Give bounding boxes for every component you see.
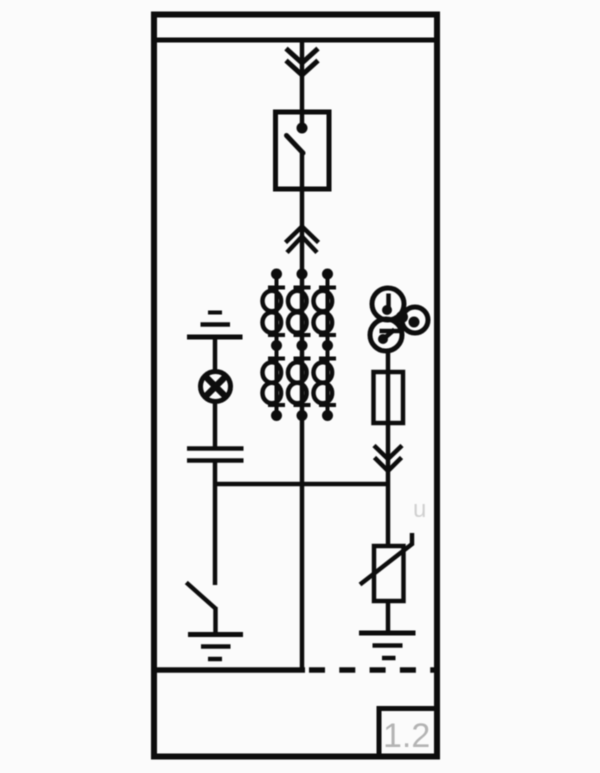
ground (earthing switch) <box>188 635 243 660</box>
withdrawable contact arrows (incoming) <box>286 49 318 76</box>
indicator lamp HL1 <box>201 372 231 402</box>
surge arrester diagonal with hook <box>360 533 412 585</box>
wire: capacitor to earthing switch <box>213 461 218 586</box>
wire: arrester to ground <box>386 601 391 633</box>
ground (inverted, voltage indicator feed) <box>187 313 243 338</box>
wire: lamp to capacitor <box>213 402 218 448</box>
wire: switch to ground <box>213 607 218 633</box>
voltage transformer (three windings) <box>370 288 428 351</box>
current transformer CT2 (middle) <box>288 269 311 422</box>
compartment floor line (solid) <box>154 667 305 673</box>
capacitor C1 <box>187 449 244 461</box>
ground (arrester) <box>359 633 416 658</box>
withdrawable contact arrows (VT branch) <box>374 446 402 472</box>
withdrawable contact arrows (below breaker) <box>286 227 319 253</box>
wire: ground to lamp <box>213 337 218 372</box>
circuit breaker enclosure <box>276 112 330 189</box>
svg-text:1.2: 1.2 <box>383 717 430 755</box>
title block <box>377 706 441 757</box>
wire: bus to surge arrester <box>386 484 391 546</box>
surge arrester FV1 (varistor) <box>374 546 404 601</box>
earthing switch blade <box>186 583 215 609</box>
panel frame <box>154 15 437 757</box>
breaker moving contact blade <box>287 136 304 154</box>
current transformer CT1 (left) <box>263 269 286 422</box>
compartment floor line (dashed) <box>309 667 440 673</box>
panel top band line <box>151 38 440 43</box>
fuse F1 <box>374 372 404 423</box>
wire: bottom bus <box>215 482 388 487</box>
wire: VT to bus <box>386 353 391 484</box>
wire: breaker to bottom bus <box>300 152 305 670</box>
svg-text:u: u <box>413 496 426 523</box>
current transformer CT3 (right) <box>314 269 337 422</box>
breaker fixed contact dot <box>297 123 308 134</box>
wire: incoming feeder drop <box>300 42 305 126</box>
